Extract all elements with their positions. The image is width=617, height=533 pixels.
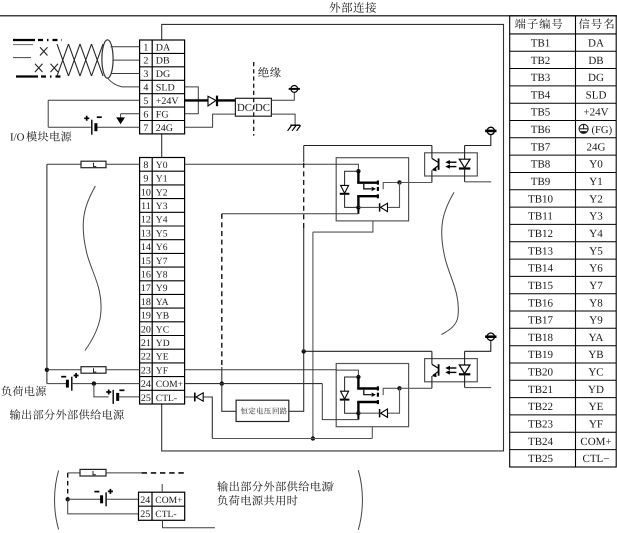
- wire: gate electrode to feedback node lower (YF): [383, 388, 399, 395]
- wire: common-supply top feed: [68, 472, 80, 474]
- battery BT1 (I/O模块电源) plates: [91, 120, 93, 135]
- transistor Q lower (YF): source contact bar: [377, 400, 379, 404]
- svg-text:24: 24: [140, 495, 150, 506]
- svg-text:17: 17: [141, 283, 151, 294]
- diode D-fb lower (YF) (points left): [381, 409, 388, 417]
- svg-text:TB7: TB7: [531, 141, 551, 153]
- svg-text:SLD: SLD: [586, 89, 607, 101]
- optocoupler lower (YF): light arrows: [449, 367, 457, 369]
- bracket: left parenthesis: [55, 471, 59, 530]
- svg-text:Y3: Y3: [589, 211, 603, 223]
- junction: drain node upper (Y0): [356, 169, 360, 173]
- svg-text:24G: 24G: [156, 123, 173, 134]
- svg-text:TB1: TB1: [531, 38, 551, 50]
- svg-text:TB5: TB5: [531, 107, 551, 119]
- svg-text:YB: YB: [588, 349, 603, 361]
- wire: left load rail vertical: [46, 164, 48, 383]
- svg-text:+24V: +24V: [156, 96, 180, 107]
- wire: DC/DC top output to earth terminal: [271, 92, 294, 100]
- optocoupler upper (Y0): LED cathode drop: [464, 169, 466, 182]
- component box: output driver cell lower (YF): [336, 364, 408, 427]
- svg-text:TB15: TB15: [528, 280, 554, 292]
- optocoupler upper (Y0): emitter drop: [431, 170, 433, 182]
- svg-text:Y6: Y6: [156, 242, 168, 253]
- label 恒定电压回路: [241, 407, 271, 414]
- net: insulation boundary dashed line 绝缘: [253, 62, 255, 136]
- svg-text:19: 19: [141, 311, 151, 322]
- battery BT4 (common supply) plates: [100, 495, 103, 503]
- junction: drain node lower (YF): [356, 375, 360, 379]
- junction: feedback node lower (YF): [397, 386, 401, 390]
- junction: CTL- node: [311, 436, 315, 440]
- component box: constant voltage circuit 恒定电压回路: [236, 400, 289, 421]
- junction: rail at YF row: [45, 368, 49, 372]
- svg-text:(FG): (FG): [592, 125, 613, 136]
- wire: common-supply dashed continuation: [142, 472, 185, 474]
- svg-text:FG: FG: [156, 109, 169, 120]
- wire: COM+ rail to constant-voltage box: [222, 384, 236, 412]
- junction: source node lower (YF): [356, 411, 360, 415]
- svg-text:14: 14: [141, 242, 151, 253]
- svg-text:23: 23: [141, 365, 151, 376]
- svg-text:Y4: Y4: [156, 215, 168, 226]
- battery BT1 - label: [97, 116, 102, 118]
- wire: stub below bottom block: [163, 520, 215, 527]
- wire: collector supply rail top: [303, 146, 305, 163]
- ground: frame-ground arrow at FG: [116, 117, 125, 124]
- svg-text:YD: YD: [588, 384, 604, 396]
- svg-text:TB20: TB20: [528, 367, 554, 379]
- svg-text:Y0: Y0: [156, 160, 168, 171]
- wire: FG (pin6) stub: [121, 113, 140, 115]
- svg-text:TB19: TB19: [528, 349, 554, 361]
- svg-text:24: 24: [141, 379, 151, 390]
- svg-text:CTL-: CTL-: [155, 509, 176, 520]
- junction: COM+ wire at dashed rail: [220, 381, 224, 385]
- svg-text:Y3: Y3: [156, 201, 168, 212]
- svg-text:16: 16: [141, 270, 151, 281]
- svg-text:TB12: TB12: [528, 228, 553, 240]
- wire: fuse F2 to pin 23 (YF): [106, 369, 140, 371]
- ground: chassis ground hatch: [290, 124, 300, 126]
- converter U1 DC/DC box: [235, 98, 271, 116]
- wire: LED cathode stub to next stage upper (Y0): [465, 181, 492, 183]
- svg-text:YD: YD: [156, 338, 170, 349]
- junction: COM+ / CTL- supply tap: [92, 381, 96, 385]
- svg-text:TB10: TB10: [528, 193, 554, 205]
- wire: battery BT3 to pin 25 (CTL-): [118, 396, 140, 398]
- wire: DC/DC bottom output to chassis: [271, 114, 295, 125]
- wire: supply return to 24G (pin7): [48, 126, 91, 128]
- wire: drain node to zener lower (YF): [345, 377, 359, 391]
- wire: CTL- bus horizontal: [212, 438, 372, 440]
- wire: rail to fuse F1 (Y0 row): [47, 163, 81, 165]
- wire: tap down to battery BT3: [94, 384, 109, 397]
- optocoupler upper (Y0): LED: [459, 159, 470, 168]
- junction: feedback node upper (Y0): [397, 180, 401, 184]
- svg-text:DB: DB: [156, 56, 170, 67]
- ground symbol: protective earth glyph in TB6 row: [579, 124, 588, 133]
- optocoupler upper (Y0): phototransistor collector drop: [431, 146, 433, 159]
- wire: zener to source node lower (YF): [345, 400, 359, 414]
- cable: shield ellipse: [102, 40, 113, 78]
- svg-text:YB: YB: [156, 311, 169, 322]
- wire: upper cell CTL feed stub: [313, 221, 373, 232]
- svg-text:I/O: I/O: [10, 132, 25, 144]
- svg-text:CTL−: CTL−: [583, 453, 610, 465]
- svg-text:DB: DB: [588, 55, 603, 67]
- terminal block TB1-TB7 frame: [140, 40, 185, 134]
- svg-text:22: 22: [141, 352, 151, 363]
- svg-text:DA: DA: [156, 42, 171, 53]
- wire: emitter to feedback node lower (YF): [400, 387, 432, 389]
- svg-text:25: 25: [141, 393, 151, 404]
- transistor Q lower (YF): source lead: [357, 401, 377, 403]
- svg-text:TB17: TB17: [528, 315, 554, 327]
- svg-text:4: 4: [143, 83, 148, 94]
- svg-text:+24V: +24V: [583, 107, 608, 119]
- battery BT4 - label: [94, 491, 99, 493]
- svg-text:/: /: [331, 482, 335, 494]
- svg-text:20: 20: [141, 324, 151, 335]
- terminal block TB8-TB25 frame: [140, 158, 185, 405]
- wire: LED cathode stub to next stage lower (YF): [465, 387, 492, 389]
- wire: pin 25 (CTL-) to diode D2: [185, 396, 195, 398]
- svg-text:TB14: TB14: [528, 263, 554, 275]
- node: module boundary box (open-left rectangle): [162, 24, 504, 451]
- terminal block (common wiring) frame: [139, 492, 185, 520]
- transistor Q upper (Y0): source lead: [357, 195, 377, 197]
- fuse F2 (load of YF): [81, 367, 106, 374]
- wire: collector supply upper (Y0): [304, 145, 432, 147]
- transistor Q upper (Y0): gate drive with arrow: [364, 184, 372, 189]
- wire: rail to battery BT2: [47, 383, 67, 385]
- svg-text:COM+: COM+: [580, 436, 611, 448]
- optocoupler lower (YF): phototransistor: [432, 364, 438, 368]
- svg-text:18: 18: [141, 297, 151, 308]
- battery BT2 (负荷电源) plates: [66, 380, 69, 388]
- svg-text:15: 15: [141, 256, 151, 267]
- svg-text:TB16: TB16: [528, 297, 554, 309]
- svg-text:25: 25: [140, 509, 150, 520]
- svg-text:Y8: Y8: [156, 270, 168, 281]
- net: repeated-circuits dashed rail (COM+): [221, 214, 223, 367]
- wire: source return to COM rail (upper): [222, 213, 359, 215]
- wire: zener to source node upper (Y0): [345, 194, 359, 208]
- svg-text:TB22: TB22: [528, 401, 553, 413]
- transistor Q lower (YF): gate contact bar: [377, 393, 379, 397]
- optocoupler lower (YF): LED: [459, 365, 470, 374]
- svg-text:TB21: TB21: [528, 384, 553, 396]
- wire: SLD-FG jumper: [185, 87, 199, 114]
- svg-text:TB25: TB25: [528, 453, 554, 465]
- battery BT3 - label: [119, 389, 124, 391]
- optocoupler lower (YF): phototransistor collector drop: [431, 351, 433, 364]
- wire: pin 8 (Y0) to driver cell: [185, 163, 337, 165]
- cable: pair B lead-in wires: [13, 57, 31, 59]
- battery BT4 + label: [108, 489, 113, 494]
- cable: braided shield crosshatch: [57, 44, 69, 76]
- wire: LED supply from earth terminal upper (Y0): [465, 134, 491, 145]
- svg-text:TB13: TB13: [528, 245, 554, 257]
- svg-text:5: 5: [143, 96, 148, 107]
- svg-text:TB9: TB9: [531, 176, 551, 188]
- wire: cable to pin 2 (DB): [113, 59, 140, 61]
- label 输出部分外部供给电源: [10, 409, 101, 419]
- svg-text:YF: YF: [589, 419, 603, 431]
- svg-text:Y2: Y2: [589, 193, 602, 205]
- optocoupler lower (YF): emitter drop: [431, 376, 433, 388]
- wire: battery BT4 to pin 24 (bottom block): [106, 498, 138, 500]
- wire: fuse F3 to dashes: [106, 472, 142, 474]
- wire: COM+ down-feed to lower cell: [322, 384, 358, 420]
- svg-text:10: 10: [141, 187, 151, 198]
- svg-text:21: 21: [141, 338, 151, 349]
- wire: pin 23 (YF) to driver cell: [185, 369, 337, 371]
- wire: supply left rail down: [47, 100, 49, 127]
- wire: source node drop lower (YF): [357, 413, 359, 419]
- battery BT1 + label: [84, 116, 89, 121]
- svg-text:YE: YE: [589, 401, 604, 413]
- wire: feedback node down to diode lower (YF): [388, 388, 400, 413]
- wire: emitter to feedback node upper (Y0): [400, 182, 432, 184]
- table header 信号名: [579, 18, 614, 29]
- ground: circled earth terminal (top of DC/DC): [291, 86, 298, 93]
- wire: dashed rail solid tail: [221, 367, 223, 384]
- battery BT2 - label: [61, 376, 66, 378]
- svg-text:TB3: TB3: [531, 72, 551, 84]
- component box: optocoupler PC upper (Y0): [425, 153, 478, 176]
- net: collector supply rail (dashed segment): [303, 162, 305, 228]
- transistor Q lower (YF): gate drive with arrow: [364, 390, 372, 395]
- svg-text:Y5: Y5: [589, 245, 603, 257]
- svg-text:Y4: Y4: [589, 228, 603, 240]
- svg-text:9: 9: [143, 174, 148, 185]
- svg-text:YE: YE: [156, 352, 169, 363]
- svg-text:Y9: Y9: [589, 315, 603, 327]
- wire: +24V (pin5) to supply: [48, 99, 139, 101]
- svg-text:24G: 24G: [587, 141, 606, 153]
- junction: source node upper (Y0): [356, 205, 360, 209]
- wire: CTL- vertical rail: [312, 232, 314, 438]
- svg-text:8: 8: [143, 160, 148, 171]
- battery BT3 (CTL supply) plates: [112, 390, 114, 404]
- svg-text:COM+: COM+: [156, 379, 183, 390]
- fuse F1 (load of Y0): [81, 161, 106, 168]
- wire: lower cell CTL feed stub: [371, 427, 373, 439]
- svg-text:3: 3: [143, 69, 148, 80]
- curve: omitted-circuits squiggle (right): [442, 192, 459, 334]
- svg-text:Y9: Y9: [156, 283, 168, 294]
- svg-text:Y7: Y7: [589, 280, 603, 292]
- svg-text:TB24: TB24: [528, 436, 554, 448]
- transistor Q lower (YF): drain contact bar: [377, 386, 379, 390]
- wire: stub above bottom block: [161, 484, 163, 492]
- optocoupler upper (Y0): LED anode drop: [464, 146, 466, 160]
- wire: +24V feed (thick): [185, 99, 208, 101]
- svg-text:6: 6: [143, 109, 148, 120]
- svg-text:12: 12: [141, 215, 151, 226]
- diode D1 (reverse-protect): [208, 96, 216, 106]
- wire: drain node to zener upper (Y0): [345, 171, 359, 185]
- wire: rail to fuse F2 (YF row): [47, 369, 81, 371]
- svg-text:YA: YA: [589, 332, 604, 344]
- wire: diode to source node upper (Y0): [358, 206, 379, 208]
- wire: collector supply rail (solid): [303, 228, 305, 351]
- optocoupler lower (YF): LED anode drop: [464, 351, 466, 365]
- zener diode ZD lower (YF): [341, 391, 349, 399]
- transistor Q upper (Y0): gate contact bar: [377, 187, 379, 191]
- wire: input corner to gate node lower (YF): [336, 370, 358, 377]
- wire: gate electrode to feedback node upper (Y0): [383, 183, 399, 190]
- wire: source node drop upper (Y0): [357, 207, 359, 213]
- battery BT3 + label: [106, 390, 111, 395]
- wire: feedback node down to diode upper (Y0): [388, 183, 400, 208]
- wire: COM+ wire from pin 24: [185, 383, 323, 385]
- wire: fuse F1 to pin 8 (Y0): [106, 163, 140, 165]
- svg-text:YC: YC: [156, 324, 169, 335]
- label 负荷电源共用时 (line 2): [218, 495, 298, 506]
- wire: cable to pin 3 (DG): [111, 73, 140, 75]
- svg-text:Y0: Y0: [589, 159, 603, 171]
- wire: LED supply from earth terminal lower (YF): [465, 340, 491, 351]
- cable: twist crossover marks: [40, 47, 48, 55]
- svg-text:SLD: SLD: [156, 83, 175, 94]
- diode D-fb upper (Y0) (points left): [381, 203, 388, 211]
- wire: tap to battery BT4: [68, 498, 101, 500]
- wire: battery BT2 to pin 24 (COM+): [72, 383, 140, 385]
- transistor Q upper (Y0): drain lead: [357, 171, 359, 183]
- svg-text:TB8: TB8: [531, 159, 551, 171]
- svg-text:TB4: TB4: [531, 89, 551, 101]
- component box: optocoupler PC lower (YF): [425, 359, 478, 382]
- wire: title underline (full width): [0, 15, 617, 17]
- svg-text:DG: DG: [588, 72, 604, 84]
- svg-text:YC: YC: [588, 367, 603, 379]
- transistor Q upper (Y0): source contact bar: [377, 194, 379, 198]
- svg-text:TB2: TB2: [531, 55, 551, 67]
- zener diode ZD upper (Y0): [341, 185, 349, 193]
- svg-text:7: 7: [143, 123, 148, 134]
- svg-text:Y7: Y7: [156, 256, 168, 267]
- svg-text:11: 11: [141, 201, 151, 212]
- svg-text:TB11: TB11: [528, 211, 553, 223]
- label 绝缘: [258, 67, 281, 77]
- wire: shield drain to pin 4 (SLD): [107, 78, 140, 87]
- component box: output driver cell upper (Y0): [336, 158, 408, 221]
- net label: title 外部连接: [329, 2, 376, 13]
- svg-text:Y5: Y5: [156, 228, 168, 239]
- svg-text:TB6: TB6: [531, 124, 551, 136]
- optocoupler upper (Y0): phototransistor: [432, 158, 438, 162]
- svg-text:Y1: Y1: [589, 176, 602, 188]
- svg-text:Y6: Y6: [589, 263, 603, 275]
- wire: diode to source node lower (YF): [358, 412, 379, 414]
- ground: circled earth terminal upper (Y0): [487, 127, 494, 134]
- bracket: right parenthesis: [358, 470, 362, 530]
- ground: circled earth terminal lower (YF): [487, 333, 494, 340]
- wire: constant-voltage box to collector rail: [289, 351, 304, 411]
- cable: dash-dot break (continuation): [38, 39, 62, 41]
- svg-text:Y8: Y8: [589, 297, 603, 309]
- battery BT2 + label: [74, 373, 79, 378]
- svg-text:2: 2: [143, 56, 148, 67]
- svg-text:Y2: Y2: [156, 187, 168, 198]
- svg-text:YF: YF: [156, 365, 168, 376]
- svg-text:Y1: Y1: [156, 174, 168, 185]
- svg-text:1: 1: [143, 42, 148, 53]
- svg-text:COM+: COM+: [155, 495, 182, 506]
- svg-text:DA: DA: [588, 38, 604, 50]
- cable: pair A lead-in wires: [13, 39, 35, 41]
- junction: common battery tap: [66, 497, 70, 501]
- wire: common-supply dashed left drop: [67, 473, 69, 499]
- svg-text:13: 13: [141, 228, 151, 239]
- svg-text:YA: YA: [156, 297, 169, 308]
- junction: collector rail tap (lower): [302, 349, 306, 353]
- wire: tap down to pin 25 (bottom block): [68, 499, 139, 514]
- terminal table frame (端子编号/信号名): [510, 16, 617, 467]
- table header 端子编号: [515, 18, 562, 29]
- diode D2 (CTL-): [196, 393, 203, 401]
- optocoupler upper (Y0): light arrows: [449, 161, 457, 163]
- svg-text:DG: DG: [156, 69, 170, 80]
- optocoupler lower (YF): LED cathode drop: [464, 374, 466, 387]
- wire: input corner to gate node upper (Y0): [336, 164, 358, 171]
- svg-text:TB18: TB18: [528, 332, 554, 344]
- transistor Q lower (YF): drain lead: [357, 377, 359, 389]
- wire: collector supply lower (YF): [304, 350, 432, 352]
- fuse F3 (common supply): [80, 469, 106, 476]
- svg-text:CTL-: CTL-: [156, 393, 177, 404]
- curve: omitted-circuits squiggle (left): [83, 186, 101, 351]
- wire: cable to pin 1 (DA): [111, 46, 140, 48]
- svg-text:TB23: TB23: [528, 419, 554, 431]
- label 负荷电源: [2, 386, 46, 396]
- label 输出部分外部供给电源/ (line 1): [217, 481, 332, 492]
- wire: 24G (pin7) to DC/DC: [185, 114, 236, 127]
- wire: diode D2 down to CTL- bus: [203, 397, 212, 439]
- transistor Q upper (Y0): drain contact bar: [377, 181, 379, 185]
